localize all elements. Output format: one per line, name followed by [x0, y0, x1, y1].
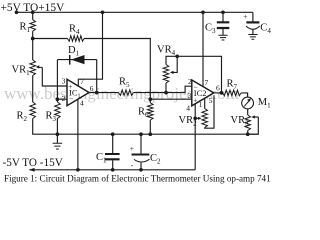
svg-text:+: + — [243, 12, 247, 21]
node: IC1 pin2 / R3 / D1 junction — [56, 97, 60, 101]
node: +V terminal dot — [15, 10, 19, 14]
resistor R4 — [68, 36, 85, 42]
wire: D1 anode down to IC1 pin2 node — [56, 60, 58, 100]
svg-text:-5V TO -15V: -5V TO -15V — [3, 157, 63, 169]
node: C2/-V rail junction — [139, 168, 143, 172]
node: VR4 bottom junction — [164, 91, 168, 95]
node: output/D1 junction — [95, 91, 99, 95]
node: IC1 pin4 / -V rail junction — [76, 168, 80, 172]
capacitor C1 — [112, 134, 114, 153]
wire: VR4 bottom to pin2 wire — [165, 83, 167, 93]
top +V rail wire — [17, 11, 253, 13]
wire: IC1 output — [89, 92, 119, 94]
svg-text:2: 2 — [62, 94, 66, 103]
wire: IC2 pin7 to +V rail — [202, 12, 204, 86]
svg-text:−: − — [69, 94, 73, 103]
potentiometer VR3 — [245, 115, 251, 131]
-V rail arrowhead — [29, 168, 35, 172]
wire: VR3 bottom — [247, 131, 249, 135]
wire: R3 top stub — [56, 99, 58, 102]
wire: R3 to ground rail — [56, 119, 58, 135]
ground under C4 — [252, 29, 254, 34]
wiper of VR2 — [195, 117, 200, 119]
svg-text:4: 4 — [80, 99, 84, 108]
wire: VR3 wiper elbow to rail end — [249, 117, 259, 134]
svg-text:4: 4 — [186, 104, 190, 113]
wire: VR1 to R2 — [32, 76, 34, 103]
svg-text:−: − — [193, 82, 197, 91]
wire: R5 to IC2 pin2 — [134, 86, 192, 92]
svg-text:2: 2 — [188, 77, 192, 86]
wiper of VR4 — [172, 56, 177, 72]
node: IC2 pin7 supply junction — [201, 10, 205, 14]
wire: R1 to VR1 — [32, 31, 34, 60]
wire: VR1 wiper to IC1 pin3 — [42, 67, 67, 86]
resistor R1 — [30, 20, 36, 32]
wire: R4 to IC2 pin3 column — [84, 39, 150, 100]
capacitor C4 — [252, 12, 254, 22]
node A: R1/VR1/R4 junction — [31, 37, 35, 41]
wire: pin2 stub — [57, 98, 67, 100]
wire: R2 to ground rail — [33, 119, 259, 135]
diode D1 feedback wire — [57, 59, 96, 61]
svg-text:+: + — [68, 82, 72, 91]
potentiometer VR4 — [163, 65, 169, 84]
wire: IC1 pin7 to +V rail — [78, 12, 102, 85]
node: output/feedback junction — [220, 91, 224, 95]
wire: R4 branch — [33, 38, 68, 40]
capacitor C3 — [222, 12, 224, 22]
capacitor C2 — [140, 134, 142, 153]
resistor R2 — [30, 102, 36, 119]
potentiometer VR1 — [30, 60, 36, 76]
svg-text:Figure 1: Circuit Diagram of E: Figure 1: Circuit Diagram of Electronic … — [4, 174, 271, 184]
wire: IC2 pin5 elbow — [205, 95, 214, 128]
svg-text:3: 3 — [188, 91, 192, 100]
svg-text:+: + — [130, 144, 134, 153]
diode D1 — [71, 55, 85, 64]
wire: VR4 top to feedback line — [166, 56, 222, 93]
svg-text:6: 6 — [216, 84, 220, 93]
node: C1/-V rail junction — [111, 168, 115, 172]
-V rail wire — [30, 169, 196, 171]
wire: IC2 pin1 stub — [204, 98, 206, 108]
wire: R6 stubs — [149, 99, 151, 134]
svg-text:7: 7 — [205, 78, 209, 87]
resistor R5 — [119, 90, 134, 96]
node: VR4 wiper tie junction — [175, 54, 179, 58]
node: C3 junction — [221, 10, 225, 14]
wire: pin3 wire IC2 — [150, 98, 192, 100]
node: R3/ground junction — [56, 132, 60, 136]
resistor R3 — [55, 102, 61, 119]
resistor R6 — [148, 103, 154, 120]
ground symbol — [56, 134, 58, 143]
wire: rail to R1 — [32, 12, 34, 19]
wire: IC2 output — [214, 92, 223, 94]
op-amp IC2 — [192, 80, 214, 106]
meter M1 — [242, 97, 254, 109]
node: R4/R6/pin3 junction — [148, 97, 152, 101]
node: IC1 pin7 supply junction — [101, 10, 105, 14]
svg-text:6: 6 — [90, 84, 94, 93]
wire: IC1 pin4 to -V rail — [77, 99, 79, 170]
svg-text:7: 7 — [80, 77, 84, 86]
ground under C3 — [222, 29, 224, 35]
node: VR2 wiper / pin4 junction — [193, 116, 197, 120]
svg-text:5: 5 — [209, 96, 213, 105]
wire: D1 cathode down to IC1 output — [96, 60, 98, 93]
svg-text:1: 1 — [199, 100, 203, 109]
wire: R7 to meter — [241, 93, 247, 97]
node: VR3/ground rail junction — [246, 132, 250, 136]
op-amp IC1 — [67, 79, 89, 105]
wiper of VR3 — [253, 116, 258, 118]
svg-text:3: 3 — [62, 76, 66, 85]
node: R1 top junction — [31, 10, 35, 14]
wire: IC2 pin4 to -V rail — [194, 104, 196, 170]
potentiometer VR2 — [202, 109, 208, 128]
node: R6/ground rail junction — [148, 132, 152, 136]
wire: meter to VR3 — [247, 109, 249, 115]
wiper of VR1 — [38, 66, 43, 68]
svg-text:+: + — [193, 96, 197, 105]
resistor R7 — [223, 90, 242, 96]
